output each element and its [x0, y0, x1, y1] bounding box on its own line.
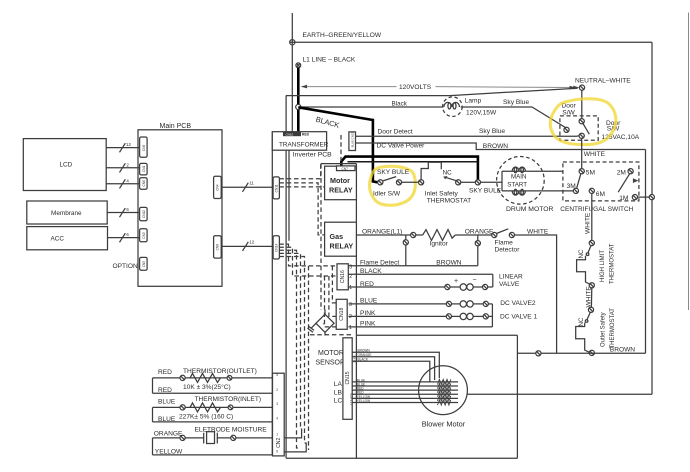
- big box right edge segment: [516, 335, 518, 458]
- wire flame-detect drop B: [475, 235, 480, 266]
- wire flame-detect drop A: [403, 235, 408, 266]
- blower motor windings: [438, 379, 451, 405]
- svg-text:BROWN: BROWN: [610, 346, 636, 353]
- svg-text:RED: RED: [158, 387, 172, 394]
- wire CN2 loom A: [284, 429, 301, 438]
- svg-text:CN8: CN8: [216, 244, 220, 251]
- svg-text:RED: RED: [158, 369, 172, 376]
- dashed stub near CN13: [340, 135, 342, 163]
- svg-text:BLACK: BLACK: [358, 358, 369, 362]
- svg-text:BLACK: BLACK: [360, 268, 382, 275]
- connector CN15: [343, 338, 356, 420]
- svg-text:6: 6: [276, 450, 278, 454]
- svg-text:12: 12: [249, 240, 254, 245]
- wire door switch to 5M: [582, 138, 606, 168]
- svg-text:MAIN: MAIN: [511, 173, 526, 180]
- svg-text:OPTION: OPTION: [113, 263, 139, 270]
- relay Motor RELAY: [325, 166, 357, 200]
- svg-text:3: 3: [349, 265, 352, 271]
- svg-text:CENTRIFUGAL SWITCH: CENTRIFUGAL SWITCH: [560, 206, 633, 213]
- svg-text:ORANGE: ORANGE: [154, 431, 183, 438]
- Main PCB box: [138, 123, 222, 286]
- switch Door S/W: [560, 103, 640, 141]
- node SKY BULE junction: [469, 180, 502, 195]
- svg-text:Door Detect: Door Detect: [378, 129, 413, 136]
- svg-text:RED: RED: [360, 281, 374, 288]
- svg-text:HIGH LIMIT: HIGH LIMIT: [600, 250, 606, 282]
- svg-text:BLACK: BLACK: [315, 115, 341, 130]
- svg-text:ELETRODE MOISTURE: ELETRODE MOISTURE: [195, 427, 268, 434]
- connector CN5 (OPTION): [140, 257, 148, 270]
- svg-text:CN1: CN1: [142, 165, 146, 172]
- svg-text:Inverter PCB: Inverter PCB: [293, 152, 332, 159]
- svg-text:DRUM MOTOR: DRUM MOTOR: [506, 206, 554, 213]
- valve DC VALVE2: [349, 298, 536, 308]
- svg-text:12: 12: [126, 142, 131, 147]
- thermostat Inlet Safety: [419, 162, 472, 204]
- thermostat Outlet Safety: [576, 307, 616, 355]
- big box bottom edge: [286, 457, 517, 459]
- svg-text:LINEAR: LINEAR: [499, 274, 523, 281]
- svg-text:ORANGE: ORANGE: [358, 353, 372, 357]
- svg-text:Gas: Gas: [330, 232, 344, 241]
- wire earth right side down: [651, 42, 653, 394]
- svg-text:RELAY: RELAY: [329, 186, 353, 195]
- svg-text:Detector: Detector: [495, 246, 521, 253]
- connector CN3 (ACC): [140, 229, 148, 242]
- svg-text:Membrane: Membrane: [51, 210, 82, 217]
- bridge rectifier: [308, 310, 335, 336]
- svg-text:Motor: Motor: [330, 176, 350, 185]
- svg-text:SENSOR: SENSOR: [316, 359, 346, 366]
- svg-text:CN16: CN16: [340, 270, 346, 283]
- svg-text:LCD: LCD: [60, 161, 73, 168]
- svg-text:CN6: CN6: [142, 180, 146, 187]
- svg-text:THERMOSTAT: THERMOSTAT: [610, 308, 616, 349]
- wire to sky bule node: [461, 181, 476, 183]
- svg-text:DC VALVE2: DC VALVE2: [500, 300, 536, 307]
- wire bundle CN18 feed 1: [325, 276, 337, 327]
- svg-text:PINK: PINK: [360, 321, 376, 328]
- wire DC Valve Power / BROWN: [356, 143, 646, 151]
- svg-text:YELLOW: YELLOW: [357, 399, 370, 403]
- svg-text:CN11: CN11: [274, 184, 278, 192]
- svg-text:ORANGE: ORANGE: [465, 228, 494, 235]
- svg-text:WHITE: WHITE: [585, 212, 592, 234]
- svg-text:10K ± 3%(25°C): 10K ± 3%(25°C): [183, 383, 231, 391]
- wire BLACK heavy diagonal: [298, 107, 373, 130]
- TRANSFORMER box: [272, 132, 328, 151]
- svg-text:Outlet Safety: Outlet Safety: [601, 312, 607, 347]
- svg-text:2: 2: [126, 162, 129, 167]
- svg-text:LA: LA: [334, 381, 343, 388]
- electrode moisture loop: [153, 427, 273, 456]
- svg-text:120V,15W: 120V,15W: [466, 110, 497, 117]
- svg-text:Sky Blue: Sky Blue: [503, 99, 529, 106]
- svg-text:ACC: ACC: [51, 235, 65, 242]
- svg-text:CN10: CN10: [286, 132, 294, 136]
- svg-text:CN5: CN5: [142, 261, 146, 268]
- wire sensor BROWN: [352, 349, 439, 378]
- svg-text:3: 3: [349, 302, 352, 308]
- thermistor (outlet) loop: [153, 368, 273, 394]
- wire bundle CN18 feed 3: [332, 266, 336, 303]
- highlight door switch: [550, 99, 616, 145]
- svg-text:1: 1: [349, 325, 352, 331]
- wire bundle CN14 pin3: [279, 244, 337, 266]
- svg-text:NC: NC: [578, 249, 585, 259]
- svg-text:1: 1: [276, 433, 278, 437]
- connector CN6 (LCD 4pin): [140, 178, 148, 190]
- Membrane box: [27, 201, 107, 224]
- svg-text:YELLOW: YELLOW: [155, 449, 183, 456]
- wire earth to CN10: [291, 45, 293, 132]
- wire blower YELLOW 1: [352, 395, 458, 399]
- wire LCD pin12: [106, 142, 139, 152]
- svg-text:CN15: CN15: [345, 371, 351, 384]
- wire lamp to door switch (Sky Blue): [461, 99, 566, 128]
- svg-text:BLUE: BLUE: [158, 416, 176, 423]
- svg-text:S/W: S/W: [562, 109, 575, 116]
- wire heavy drop to idler: [373, 119, 378, 183]
- svg-text:−: −: [473, 277, 477, 284]
- node ignitor input: [411, 232, 416, 237]
- wire ignitor to flame detector: [455, 228, 494, 235]
- connector CN14: [273, 236, 279, 259]
- svg-text:CN9: CN9: [142, 144, 146, 151]
- wire between thermostats: [586, 286, 593, 308]
- svg-text:6: 6: [126, 232, 129, 237]
- wire box top edge: [286, 88, 578, 95]
- wire bundle CN14 pin5: [279, 250, 300, 448]
- svg-text:ORANGE(L1): ORANGE(L1): [362, 228, 402, 235]
- svg-text:3: 3: [276, 402, 278, 406]
- wire blower RED 2: [352, 391, 458, 395]
- wire blower BLUE 2: [352, 382, 458, 386]
- svg-text:6M: 6M: [596, 191, 605, 198]
- svg-text:2: 2: [276, 388, 278, 392]
- svg-text:120VOLTS: 120VOLTS: [399, 84, 432, 91]
- wire sensor ORANGE: [352, 353, 434, 380]
- wire blower RED 1: [352, 387, 458, 391]
- connector CN12 (Membrane): [140, 207, 148, 220]
- svg-text:RED: RED: [302, 133, 310, 137]
- wire BLACK (linear valve +): [349, 268, 493, 275]
- wire 6M down: [585, 194, 592, 241]
- dashed stub under bridge: [310, 334, 352, 336]
- svg-text:TRANSFORMER: TRANSFORMER: [279, 141, 329, 148]
- svg-text:VALVE: VALVE: [499, 281, 520, 288]
- connector CN4 (Main PCB right upper): [214, 176, 222, 198]
- svg-text:THERMISTOR(OUTLET): THERMISTOR(OUTLET): [183, 368, 257, 375]
- svg-text:CN18: CN18: [339, 308, 345, 321]
- wire bundle CN11 pin1: [279, 164, 320, 179]
- node L1 terminal: [296, 57, 356, 68]
- highlight idler SKY BULE: [370, 166, 416, 205]
- svg-text:SKY BULE: SKY BULE: [377, 169, 410, 176]
- wire bottom BROWN return: [517, 346, 645, 353]
- svg-text:11: 11: [249, 181, 254, 186]
- wire sensor BLACK: [352, 358, 430, 382]
- wire bundle CN15 feed low: [308, 266, 310, 450]
- wire idler to inlet thermostat: [402, 181, 419, 183]
- svg-text:+: +: [454, 278, 458, 285]
- wire bundle CN18 feed 2: [329, 276, 336, 316]
- svg-text:Idler S/W: Idler S/W: [373, 190, 401, 197]
- svg-text:L1 LINE – BLACK: L1 LINE – BLACK: [303, 57, 356, 64]
- frame outer right border: [688, 13, 690, 311]
- wire PINK common: [349, 304, 493, 328]
- svg-text:Flame Detect: Flame Detect: [360, 260, 399, 267]
- svg-text:EARTH–GREEN/YELLOW: EARTH–GREEN/YELLOW: [303, 32, 382, 39]
- svg-text:WHITE: WHITE: [584, 151, 606, 158]
- svg-text:BROWN: BROWN: [358, 349, 371, 353]
- node on brown return: [536, 351, 541, 356]
- connector CN10 on transformer: [283, 132, 310, 137]
- dimension 120VOLTS: [301, 84, 576, 91]
- wire neutral down to door switch: [581, 90, 583, 118]
- wire 11 (Main PCB to CN11): [221, 181, 272, 192]
- wire transformer to CN14: [288, 150, 290, 241]
- svg-text:2M: 2M: [617, 169, 626, 176]
- wire Membrane 6: [107, 207, 139, 217]
- relay Gas RELAY: [325, 222, 357, 256]
- node earth terminal: [290, 40, 295, 45]
- connector CN9 (LCD 12pin): [140, 137, 148, 157]
- svg-text:BLUE: BLUE: [158, 399, 176, 406]
- wire CN2 loom B: [284, 443, 306, 452]
- svg-text:THERMOSTAT: THERMOSTAT: [427, 198, 471, 205]
- svg-text:START: START: [507, 182, 527, 189]
- wire 1M to right rail: [638, 196, 650, 198]
- connector CN8 (Main PCB right lower): [214, 236, 222, 258]
- svg-text:Main PCB: Main PCB: [160, 123, 192, 130]
- svg-text:WHITE: WHITE: [586, 286, 593, 308]
- svg-text:BROWN: BROWN: [436, 260, 462, 267]
- svg-text:5: 5: [276, 373, 278, 377]
- label MOTOR SENSOR: [316, 350, 346, 367]
- lamp L1: [443, 97, 497, 117]
- wire bundle CN11 pin2: [279, 183, 324, 235]
- big box left edge: [285, 96, 287, 459]
- connector column rail: [271, 132, 273, 456]
- wire ACC 6: [108, 232, 140, 242]
- wire 12 (Main PCB to CN14): [221, 240, 272, 251]
- svg-text:WHITE: WHITE: [527, 228, 549, 235]
- svg-text:Inlet Safety: Inlet Safety: [425, 190, 459, 197]
- svg-text:4: 4: [126, 178, 129, 183]
- svg-text:Blower Motor: Blower Motor: [422, 419, 466, 428]
- wire relay feed 2: [348, 161, 478, 163]
- svg-text:CN4: CN4: [216, 184, 220, 191]
- node neutral terminal: [573, 78, 631, 91]
- svg-text:NC: NC: [443, 169, 453, 176]
- svg-text:THERMISTOR(INLET): THERMISTOR(INLET): [195, 396, 262, 403]
- wire bundle CN14 pin6: [279, 253, 301, 429]
- wire to drum motor: [481, 181, 503, 183]
- svg-text:BLUE CN13: BLUE CN13: [350, 132, 354, 148]
- thermistor (inlet) loop: [153, 396, 273, 423]
- wire earth drop: [291, 13, 293, 44]
- connector CN1 (LCD 2pin): [140, 163, 148, 175]
- svg-text:2: 2: [349, 314, 352, 320]
- wire bundle CN14 pin7: [279, 257, 306, 444]
- svg-text:6: 6: [126, 207, 129, 212]
- svg-text:NC: NC: [578, 317, 585, 327]
- wire valve area bottom: [356, 334, 517, 336]
- svg-text:MOTOR: MOTOR: [318, 350, 344, 357]
- svg-text:3M: 3M: [567, 183, 576, 190]
- resistor Ignitor: [416, 230, 456, 248]
- svg-text:CN2: CN2: [276, 438, 282, 448]
- svg-text:PINK: PINK: [360, 310, 376, 317]
- svg-text:227K± 5% (160 C): 227K± 5% (160 C): [179, 414, 233, 421]
- svg-text:CN14: CN14: [274, 244, 278, 252]
- connector CN13: [349, 132, 356, 151]
- svg-text:Ignitor: Ignitor: [430, 241, 449, 248]
- svg-text:DC VALVE 1: DC VALVE 1: [500, 313, 537, 320]
- svg-text:SKY BULE: SKY BULE: [469, 188, 502, 195]
- svg-text:LB: LB: [334, 389, 343, 396]
- svg-text:CN7: CN7: [342, 167, 349, 171]
- valve LINEAR VALVE: [349, 274, 524, 291]
- switch Idler S/W: [373, 177, 402, 198]
- wire bundle CN14 pin4: [279, 247, 337, 276]
- wire L1 heavy drop: [297, 68, 300, 133]
- svg-text:RELAY: RELAY: [330, 242, 354, 251]
- connector CN16: [337, 264, 352, 291]
- wire ORANGE(L1) from gas relay: [356, 228, 410, 235]
- svg-text:BROWN: BROWN: [483, 143, 509, 150]
- svg-text:5M: 5M: [586, 169, 595, 176]
- svg-text:NEUTRAL–WHITE: NEUTRAL–WHITE: [575, 78, 631, 85]
- svg-text:LC: LC: [334, 397, 343, 404]
- wire Black to lamp: [301, 100, 443, 107]
- connector CN2: [273, 373, 285, 456]
- motor DRUM MOTOR: [497, 157, 574, 213]
- wire Flame Detect / BROWN: [349, 260, 478, 267]
- svg-text:Sky Blue: Sky Blue: [479, 128, 505, 135]
- svg-text:1M: 1M: [619, 195, 628, 202]
- valve DC VALVE 1: [349, 310, 538, 320]
- wire LCD pin4: [106, 178, 139, 188]
- wire blower return to earth rail: [467, 393, 652, 395]
- svg-text:DC Valve Power: DC Valve Power: [377, 143, 426, 150]
- connector CN18: [336, 299, 352, 331]
- label LA LB LC: [334, 381, 343, 404]
- svg-text:Lamp: Lamp: [465, 98, 482, 105]
- thermostat HIGH LIMIT: [577, 240, 616, 288]
- svg-text:BLUE: BLUE: [360, 298, 378, 305]
- svg-text:Black: Black: [392, 100, 408, 107]
- wire bundle CN11 pin3: [279, 186, 324, 188]
- wire blower BLUE 1: [352, 378, 458, 382]
- wire Door Detect: [356, 128, 579, 136]
- svg-text:THERMOSTAT: THERMOSTAT: [609, 243, 615, 284]
- node 1M rail junction: [649, 195, 654, 200]
- inverter board outline: [321, 164, 356, 459]
- wire heavy relay feed: [341, 157, 478, 180]
- svg-text:CN12: CN12: [142, 210, 146, 218]
- connector CN11: [273, 177, 279, 199]
- wire blower YELLOW 2: [352, 399, 458, 403]
- connector CN7: [337, 166, 356, 171]
- wire EARTH-GREEN/YELLOW: [290, 32, 652, 42]
- LCD box: [23, 139, 106, 191]
- switch CENTRIFUGAL: [560, 162, 639, 213]
- detector Flame Detector: [492, 229, 521, 254]
- wire WHITE to down rail: [515, 228, 557, 353]
- svg-text:4: 4: [276, 417, 278, 421]
- ACC box: [27, 227, 108, 250]
- wire neutral right rail down: [645, 150, 647, 354]
- svg-text:CN3: CN3: [142, 232, 146, 239]
- motor Blower Motor: [419, 366, 468, 428]
- wire LCD pin2: [106, 162, 139, 172]
- svg-text:1: 1: [349, 285, 352, 291]
- node lamp-line junction: [296, 104, 301, 109]
